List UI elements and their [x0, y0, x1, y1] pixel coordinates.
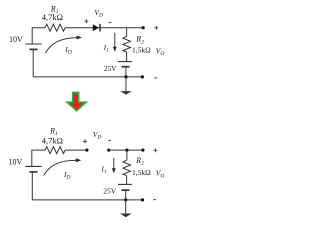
node dot: bottom rail right end (top circuit) — [141, 75, 144, 78]
wire: R2 bottom to 25V battery (bottom circuit) — [126, 175, 128, 184]
wire: R2 branch from top wire (top circuit) — [126, 28, 128, 37]
battery 10V (bottom circuit) — [25, 166, 41, 172]
ground (top circuit) — [120, 77, 132, 95]
wire: R2 bottom to 25V battery (top circuit) — [126, 52, 128, 62]
wire: top-left corner from 10V battery up and right (bottom circuit) — [32, 150, 45, 166]
wire: top horizontal from R1 to output stub — [65, 27, 143, 29]
wire: bottom rail (bottom circuit) — [32, 199, 142, 201]
plus sign at top output terminal (bottom circuit) — [154, 148, 158, 152]
wire: cathode terminal to output stub (bottom circuit) — [109, 149, 143, 151]
node dot: top output stub (bottom circuit) — [141, 149, 144, 152]
node dot: top output stub — [142, 26, 145, 29]
node dot: bottom rail junction (bottom circuit) — [124, 198, 127, 201]
minus sign right of diode — [109, 21, 112, 23]
current arrow I1 (bottom, pointing down) — [112, 158, 116, 173]
wire: top-left corner from 10V battery up and right — [32, 28, 45, 44]
current arrow ID (top, curved) — [46, 36, 83, 53]
wire: 25V battery to bottom rail (top circuit) — [125, 67, 127, 77]
minus sign at bottom output terminal (bottom circuit) — [153, 199, 156, 201]
diode D (triangle + cathode bar) — [93, 24, 101, 32]
resistor R1 zigzag (top) — [45, 24, 65, 31]
wire: R1 to open anode terminal (bottom circuit) — [65, 149, 87, 151]
resistor R2 zigzag (top, vertical) — [123, 37, 131, 53]
svg-text:4,7kΩ: 4,7kΩ — [42, 12, 63, 22]
wire: R2 branch from junction (bottom circuit) — [126, 150, 128, 160]
wire: bottom rail (top circuit) — [33, 76, 142, 78]
current arrow I1 (top, pointing down) — [113, 33, 117, 52]
resistor R2 zigzag (bottom, vertical) — [123, 160, 131, 175]
svg-text:10V: 10V — [9, 157, 23, 166]
minus sign at open cathode (bottom) — [108, 140, 111, 142]
svg-text:1,5kΩ: 1,5kΩ — [132, 168, 151, 177]
node dot: R2 junction on top wire (bottom circuit) — [125, 149, 128, 152]
svg-text:10V: 10V — [9, 35, 23, 44]
current arrow ID (bottom, curved) — [44, 158, 81, 175]
svg-text:25V: 25V — [104, 64, 118, 73]
svg-text:4,7kΩ: 4,7kΩ — [42, 135, 63, 145]
node dot: bottom rail right end (bottom circuit) — [141, 198, 144, 201]
plus sign left of diode — [84, 19, 88, 23]
battery 10V (top circuit) — [25, 44, 41, 49]
ground (bottom circuit) — [120, 200, 132, 217]
minus sign at bottom output terminal (top circuit) — [154, 77, 157, 79]
resistor R1 zigzag (bottom) — [45, 147, 65, 154]
battery 25V (bottom circuit) — [118, 184, 132, 190]
plus sign at open anode (bottom) — [83, 139, 87, 143]
wire: left branch down to bottom rail (top circuit) — [32, 49, 34, 77]
wire: 25V battery to bottom rail (bottom circuit) — [125, 190, 127, 200]
node dot: open cathode terminal (bottom) — [107, 149, 110, 152]
wire: left branch down to bottom rail (bottom circuit) — [31, 172, 33, 200]
transition arrow (red with green outline) — [67, 93, 86, 111]
node dot: bottom rail junction (top circuit) — [124, 75, 127, 78]
node dot: open anode terminal (bottom) — [85, 149, 88, 152]
svg-text:25V: 25V — [103, 186, 117, 195]
battery 25V (top circuit) — [118, 62, 132, 67]
svg-text:1,5kΩ: 1,5kΩ — [132, 46, 151, 55]
plus sign at top output terminal — [154, 26, 158, 30]
